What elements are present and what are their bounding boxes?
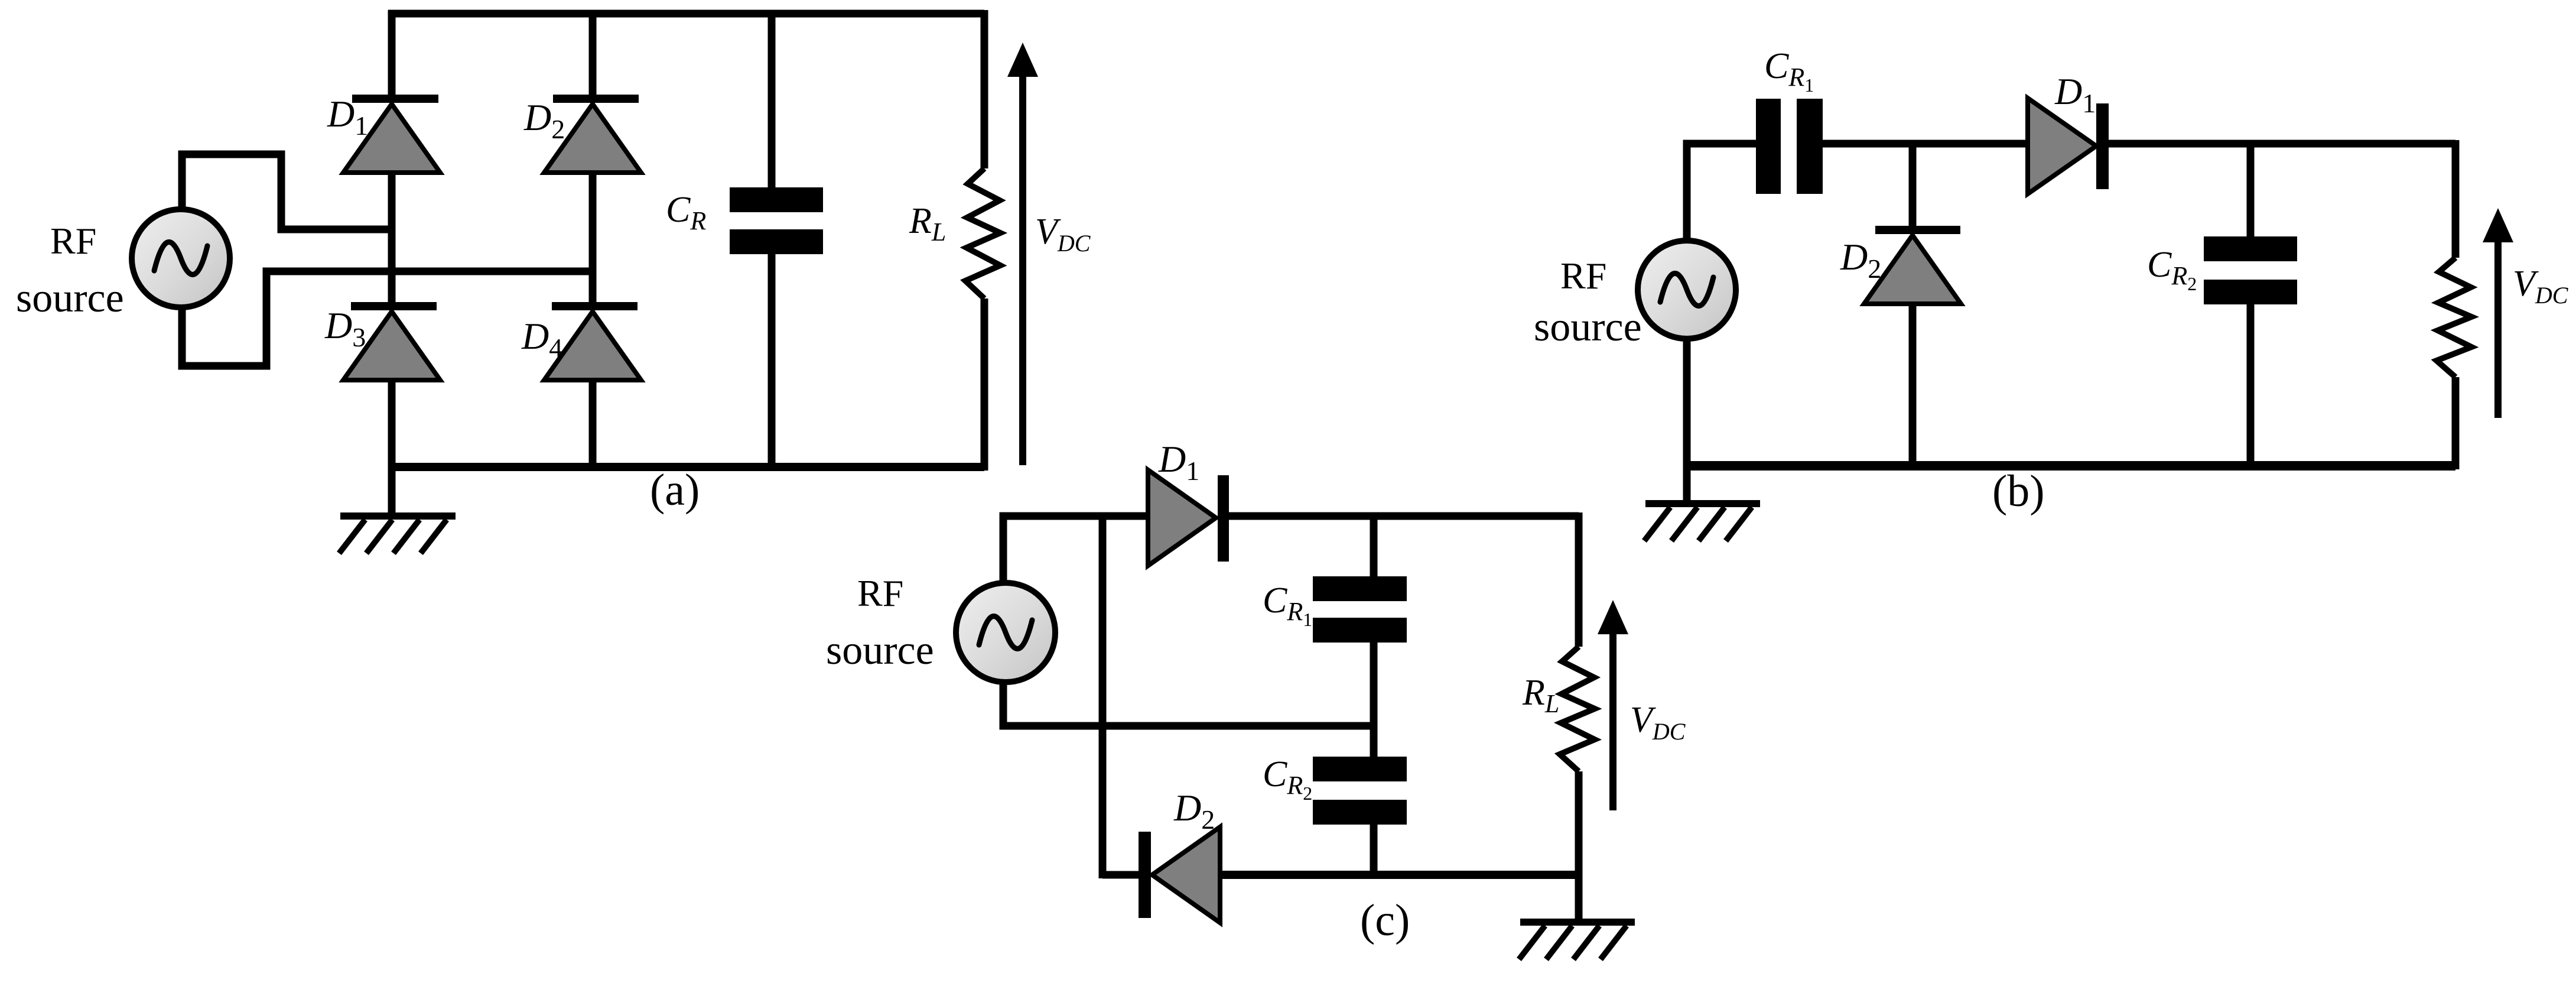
- diode D1 (a): [343, 95, 440, 173]
- wire: (c) D1 cathode to output corner: [1229, 512, 1579, 520]
- svg-text:source: source: [1534, 304, 1642, 350]
- wire: (a) D1 anode to D3 cathode vertical: [388, 171, 396, 303]
- svg-text:CR1: CR1: [1764, 46, 1814, 96]
- svg-text:RF: RF: [50, 220, 96, 262]
- svg-text:VDC: VDC: [2513, 264, 2569, 309]
- VDC arrow (c): [1598, 600, 1628, 810]
- wire: (a) RL bottom lead: [981, 299, 988, 471]
- VDC arrow (b): [2483, 208, 2513, 418]
- resistor RL (c): [1560, 647, 1595, 771]
- diode D2 (c): [1139, 827, 1220, 923]
- svg-text:RF: RF: [1560, 255, 1606, 297]
- svg-text:RL: RL: [1522, 673, 1559, 718]
- wire: (c) branch from top rail down to D2 cathode: [1099, 512, 1107, 878]
- wire: (c) D2 cathode link from branch: [1102, 871, 1140, 879]
- svg-text:D2: D2: [523, 96, 565, 144]
- wire: (c) source bottom lead and mid rail to capacitor junction: [1003, 681, 1374, 726]
- resistor RL (a): [965, 168, 1000, 299]
- wire: (c) CR1 top lead: [1370, 512, 1378, 578]
- wire: (b) D2 anode to bottom rail: [1909, 303, 1917, 467]
- wire: (b) D1 cathode to output corner: [2108, 140, 2455, 148]
- svg-text:source: source: [826, 628, 934, 673]
- wire: (b) CR2 bottom lead: [2247, 304, 2255, 467]
- diode D4 (a): [544, 302, 641, 380]
- wire: (c) CR2 bottom lead: [1370, 824, 1378, 878]
- svg-text:D3: D3: [324, 304, 366, 352]
- svg-text:D1: D1: [1158, 438, 1199, 486]
- wire: (b) D2 cathode lead: [1909, 144, 1917, 227]
- svg-text:CR2: CR2: [2147, 245, 2197, 294]
- wire: (a) RL top lead from top rail corner: [981, 10, 988, 168]
- wire: (a) CR bottom lead: [768, 253, 776, 467]
- svg-text:(b): (b): [1992, 466, 2045, 516]
- wire: (a) CR top lead: [768, 14, 776, 189]
- diode D2 (b): [1864, 226, 1961, 304]
- wire: (b) source bottom lead: [1683, 339, 1691, 469]
- wire: (b) load top lead: [2452, 140, 2460, 258]
- svg-text:D1: D1: [2054, 70, 2096, 118]
- wire: (b) CR2 top lead: [2247, 144, 2255, 237]
- svg-text:source: source: [16, 275, 124, 321]
- RF source (c): [956, 583, 1055, 682]
- capacitor CR1 (c): [1313, 576, 1407, 643]
- wire: (a) top output rail: [388, 10, 984, 18]
- svg-text:(a): (a): [650, 465, 700, 515]
- wire: (a) D2 anode to D4 cathode vertical: [589, 171, 597, 303]
- RF source (a): [132, 209, 230, 307]
- svg-text:RL: RL: [909, 201, 946, 246]
- ground (a): [339, 467, 456, 553]
- wire: (a) D1 cathode stub to top rail: [388, 10, 396, 96]
- wire: (c) bottom rail from D2 anode to ground corner: [1220, 871, 1579, 879]
- svg-text:D2: D2: [1840, 236, 1881, 284]
- capacitor CR2 (c): [1313, 757, 1407, 825]
- diode D1 (b): [2028, 98, 2109, 194]
- wire: (c) CR1 bottom lead through mid rail to CR2: [1370, 641, 1378, 757]
- wire: (a) D4 anode down to bottom rail: [589, 379, 597, 471]
- VDC arrow (a): [1007, 43, 1038, 465]
- ground (b): [1644, 466, 1760, 541]
- wire: (c) source top lead and top rail to D1 anode: [1003, 516, 1148, 582]
- resistor load (b): [2437, 258, 2471, 377]
- svg-text:D2: D2: [1173, 787, 1215, 835]
- wire: (a) D2 cathode stub to top rail: [589, 10, 597, 96]
- diode D3 (a): [343, 302, 440, 380]
- wire: (a) RF source minus lead to D2/D4 node: [182, 271, 593, 366]
- svg-text:CR2: CR2: [1263, 754, 1312, 804]
- capacitor CR1 (b): [1756, 99, 1823, 194]
- wire: (a) bottom ground rail: [388, 463, 984, 471]
- wire: (a) D3 anode down to bottom rail: [388, 379, 396, 471]
- wire: (b) CR1 to D1 anode: [1823, 140, 2028, 148]
- ground (c): [1519, 875, 1635, 959]
- svg-text:VDC: VDC: [1630, 700, 1686, 745]
- svg-text:VDC: VDC: [1035, 212, 1091, 257]
- wire: (b) bottom ground rail: [1683, 461, 2455, 471]
- diode D2 (a): [544, 95, 641, 173]
- svg-text:D4: D4: [521, 315, 562, 363]
- wire: (a) RF source plus lead to D1/D3 node: [182, 154, 392, 229]
- wire: (b) load bottom lead: [2452, 377, 2460, 469]
- svg-text:(c): (c): [1360, 896, 1410, 945]
- capacitor CR (a): [730, 187, 823, 254]
- svg-text:CR: CR: [666, 190, 706, 235]
- svg-text:RF: RF: [857, 572, 903, 614]
- diode D1 (c): [1148, 470, 1229, 566]
- svg-text:CR1: CR1: [1263, 580, 1312, 630]
- RF source (b): [1638, 241, 1736, 339]
- wire: (c) load bottom lead: [1575, 771, 1583, 878]
- capacitor CR2 (b): [2204, 236, 2297, 304]
- wire: (b) source top lead and corner to CR1: [1687, 144, 1756, 239]
- wire: (c) load top lead: [1575, 512, 1583, 647]
